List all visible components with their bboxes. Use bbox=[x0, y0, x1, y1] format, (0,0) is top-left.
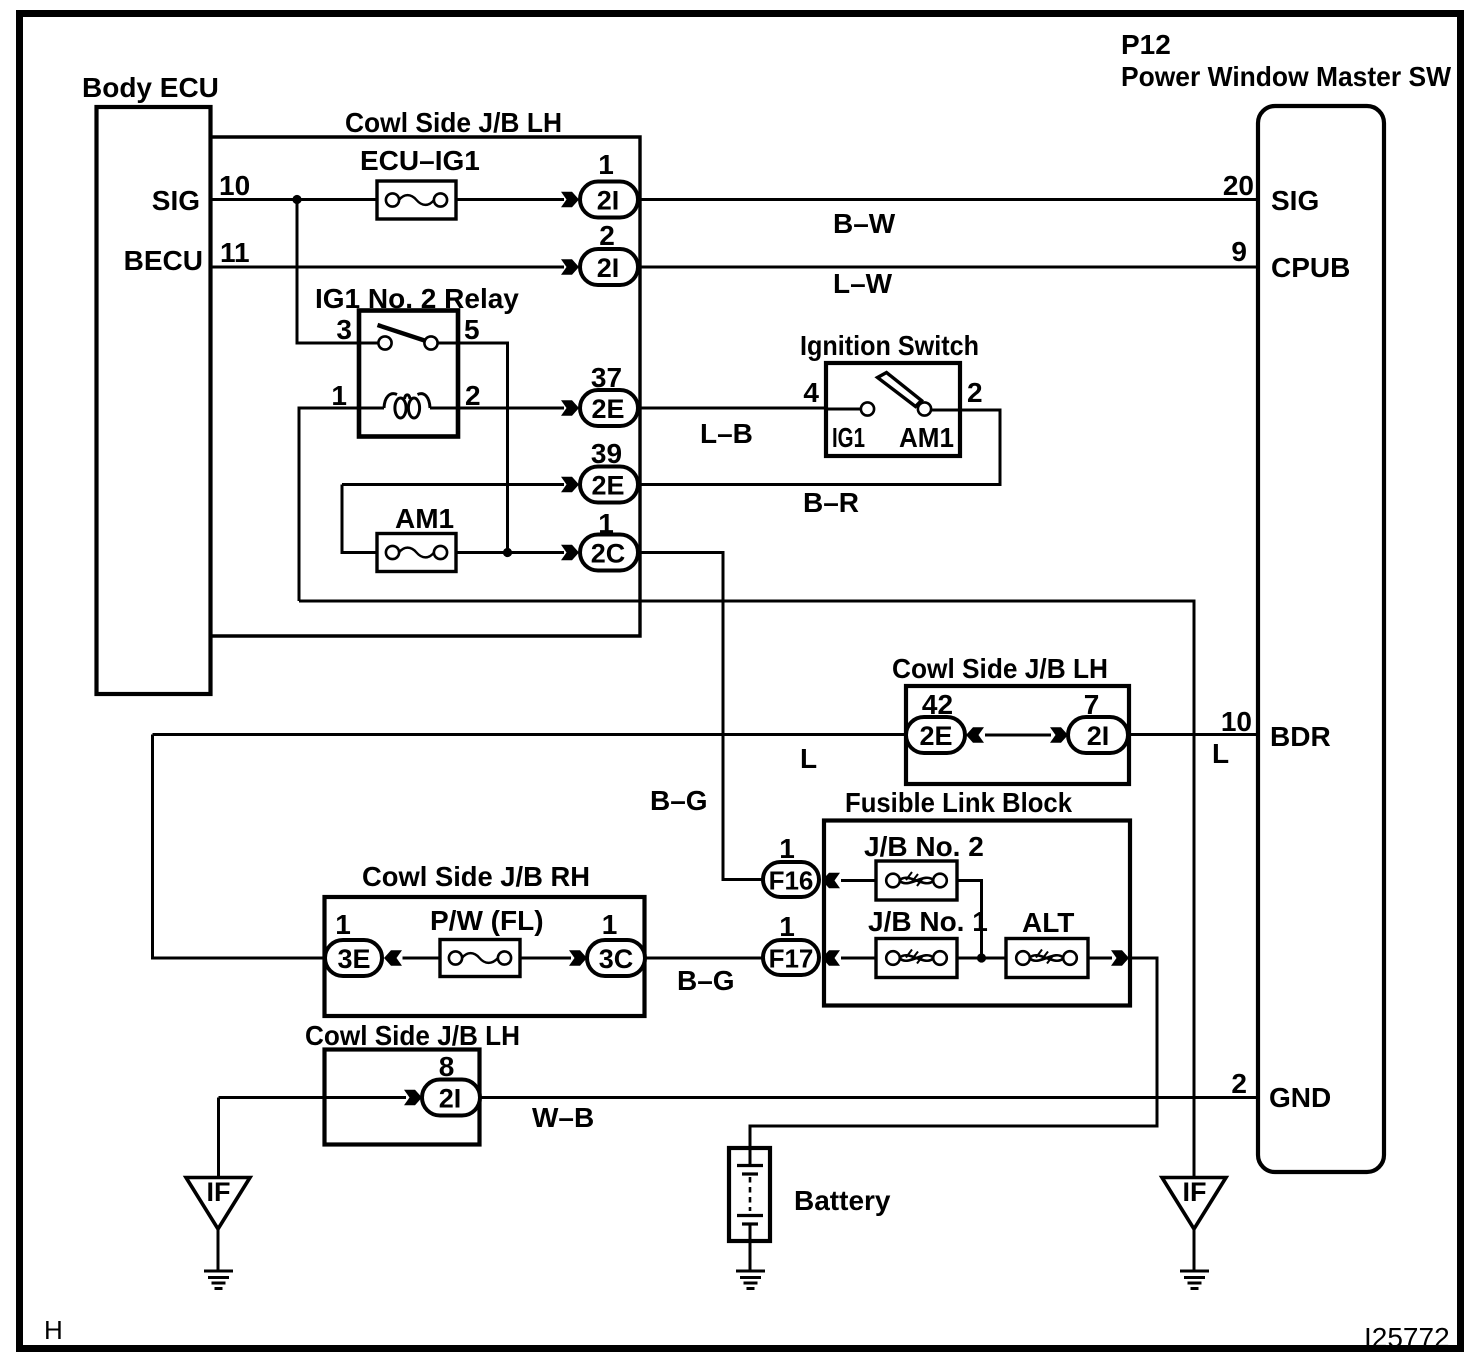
svg-text:1: 1 bbox=[598, 508, 614, 539]
svg-text:CPUB: CPUB bbox=[1271, 252, 1350, 283]
svg-text:1: 1 bbox=[602, 909, 618, 940]
svg-text:2I: 2I bbox=[1087, 721, 1110, 751]
svg-text:20: 20 bbox=[1223, 170, 1254, 201]
P12 pin 2 GND bbox=[1231, 1068, 1331, 1113]
svg-text:9: 9 bbox=[1231, 236, 1247, 267]
ground triangle IF left bbox=[186, 1177, 250, 1229]
svg-text:L–B: L–B bbox=[700, 418, 753, 449]
svg-text:1: 1 bbox=[779, 911, 795, 942]
svg-text:1: 1 bbox=[331, 380, 347, 411]
svg-text:10: 10 bbox=[1221, 706, 1252, 737]
svg-text:IG1 No. 2 Relay: IG1 No. 2 Relay bbox=[315, 283, 519, 314]
connector 2E pin 37 bbox=[580, 362, 638, 426]
svg-text:B–W: B–W bbox=[833, 208, 896, 239]
svg-text:2I: 2I bbox=[597, 253, 620, 283]
arrow into 2I 7 (right pointing) bbox=[1050, 727, 1068, 743]
wire relay pin 5 down to AM1 row bbox=[438, 343, 508, 553]
svg-text:2E: 2E bbox=[591, 394, 624, 424]
Cowl Side J/B LH box (bottom) bbox=[305, 1020, 520, 1145]
svg-text:J/B No. 2: J/B No. 2 bbox=[864, 831, 984, 862]
wire BECU row bbox=[210, 266, 564, 269]
svg-text:5: 5 bbox=[464, 314, 480, 345]
svg-text:1: 1 bbox=[335, 909, 351, 940]
wire 2I8 to P12 GND (W-B) bbox=[480, 1096, 1258, 1099]
wire J/B No.2 to junction bbox=[957, 881, 982, 959]
connector F17 bbox=[763, 911, 819, 975]
connector 3E bbox=[325, 909, 382, 976]
svg-text:3E: 3E bbox=[337, 944, 370, 974]
svg-text:F17: F17 bbox=[769, 944, 814, 974]
svg-text:2: 2 bbox=[1231, 1068, 1247, 1099]
wire 3E to fuse bbox=[403, 957, 441, 960]
svg-text:L: L bbox=[800, 743, 817, 774]
fuse ECU-IG1 bbox=[360, 145, 480, 219]
svg-text:IG1: IG1 bbox=[832, 422, 865, 453]
Cowl Side J/B RH box bbox=[325, 861, 645, 1016]
svg-text:H: H bbox=[44, 1315, 63, 1345]
ignition blade bbox=[878, 373, 922, 407]
svg-text:Power Window Master SW: Power Window Master SW bbox=[1121, 61, 1452, 92]
svg-text:4: 4 bbox=[803, 377, 819, 408]
arrow into 2E 42 (left pointing) bbox=[966, 727, 984, 743]
svg-text:3: 3 bbox=[336, 314, 352, 345]
svg-text:Cowl Side J/B RH: Cowl Side J/B RH bbox=[362, 861, 590, 892]
svg-text:Battery: Battery bbox=[794, 1185, 891, 1216]
svg-text:ALT: ALT bbox=[1022, 907, 1074, 938]
svg-text:10: 10 bbox=[219, 170, 250, 201]
arrow into 2E 39 bbox=[561, 477, 579, 493]
svg-text:Body ECU: Body ECU bbox=[82, 72, 219, 103]
arrow into 2E 37 bbox=[561, 400, 579, 416]
ignition pin labels bbox=[803, 377, 982, 453]
svg-text:2I: 2I bbox=[597, 186, 620, 216]
svg-text:B–G: B–G bbox=[650, 785, 708, 816]
connector 2E pin 39 bbox=[580, 438, 638, 503]
svg-text:11: 11 bbox=[220, 237, 250, 268]
svg-text:Cowl Side J/B LH: Cowl Side J/B LH bbox=[305, 1020, 520, 1051]
svg-text:2: 2 bbox=[599, 220, 615, 251]
P12 Power Window Master SW connector bbox=[1121, 29, 1452, 1172]
connector 2E pin 42 bbox=[906, 689, 965, 753]
wire GND row left bbox=[219, 1096, 407, 1099]
arrow into 2I pin1 bbox=[561, 192, 579, 208]
wire battery to ground bbox=[749, 1241, 752, 1271]
svg-text:39: 39 bbox=[591, 438, 622, 469]
svg-text:SIG: SIG bbox=[152, 185, 200, 216]
svg-text:2E: 2E bbox=[919, 721, 952, 751]
wire SIG to P12 (B-W) bbox=[638, 198, 1258, 201]
connector 2I pin 1 bbox=[580, 149, 638, 218]
Fusible Link Block box bbox=[824, 787, 1130, 1006]
svg-text:P12: P12 bbox=[1121, 29, 1171, 60]
svg-text:P/W (FL): P/W (FL) bbox=[430, 905, 544, 936]
svg-text:Cowl Side J/B LH: Cowl Side J/B LH bbox=[345, 107, 562, 138]
wire SIG row bbox=[210, 198, 564, 201]
svg-text:F16: F16 bbox=[769, 866, 814, 896]
svg-text:AM1: AM1 bbox=[395, 503, 454, 534]
svg-text:2E: 2E bbox=[591, 471, 624, 501]
arrow out of fusible link block (right pointing) bbox=[1111, 950, 1129, 966]
wire junction down to relay pin 3 bbox=[297, 200, 378, 344]
fusible link ALT bbox=[1006, 907, 1088, 978]
svg-text:Ignition Switch: Ignition Switch bbox=[800, 330, 979, 361]
wire relay pin 2 to 2E 37 bbox=[456, 407, 564, 410]
wire relay pin 1 left and down bbox=[299, 408, 359, 601]
ignition wire inside bbox=[826, 408, 861, 411]
arrow into 2C bbox=[561, 545, 579, 561]
Cowl Side J/B LH box (upper) bbox=[211, 107, 641, 636]
wire fuse to 3C bbox=[520, 957, 571, 960]
node junction F17 row bbox=[977, 953, 986, 962]
pin BECU label bbox=[124, 237, 250, 276]
svg-text:Cowl Side J/B LH: Cowl Side J/B LH bbox=[892, 653, 1108, 684]
relay blade bbox=[378, 325, 427, 341]
svg-text:7: 7 bbox=[1084, 689, 1100, 720]
arrow into 2I pin2 bbox=[561, 259, 579, 275]
pin SIG label bbox=[152, 170, 250, 216]
svg-text:37: 37 bbox=[591, 362, 622, 393]
wire pin1 ground run to right side bbox=[299, 601, 1194, 1177]
relay contact circles bbox=[378, 336, 391, 349]
battery bbox=[729, 1148, 891, 1241]
svg-text:BDR: BDR bbox=[1270, 721, 1331, 752]
svg-text:IF: IF bbox=[1183, 1177, 1207, 1207]
svg-text:8: 8 bbox=[439, 1051, 455, 1082]
svg-text:B–G: B–G bbox=[677, 965, 735, 996]
svg-text:I25772: I25772 bbox=[1364, 1322, 1450, 1353]
ground symbol left bbox=[204, 1271, 233, 1289]
wire AM1 to 2C bbox=[456, 551, 564, 554]
arrow into F17 (left pointing) bbox=[822, 950, 840, 966]
wire F17 row bbox=[841, 957, 876, 960]
svg-text:B–R: B–R bbox=[803, 487, 859, 518]
wire J/B No.1 to ALT bbox=[957, 957, 1006, 960]
arrow into 3E (left pointing) bbox=[384, 950, 402, 966]
node junction on SIG wire bbox=[292, 195, 301, 204]
fuse AM1 bbox=[377, 503, 456, 572]
connector 2I pin 8 bbox=[422, 1051, 480, 1116]
svg-text:3C: 3C bbox=[599, 944, 634, 974]
fusible link J/B No. 2 bbox=[864, 831, 984, 900]
svg-text:L: L bbox=[1212, 738, 1229, 769]
svg-text:W–B: W–B bbox=[532, 1102, 594, 1133]
svg-text:IF: IF bbox=[207, 1177, 231, 1207]
svg-text:GND: GND bbox=[1269, 1082, 1331, 1113]
fuse P/W (FL) bbox=[430, 905, 544, 977]
svg-text:2: 2 bbox=[967, 377, 983, 408]
relay pin labels bbox=[331, 314, 480, 411]
wire 39 row down to AM1 fuse bbox=[342, 485, 377, 553]
svg-text:2C: 2C bbox=[591, 539, 626, 569]
wire left down to IF ground bbox=[217, 1098, 220, 1178]
svg-text:2: 2 bbox=[465, 380, 481, 411]
ground triangle IF right bbox=[1162, 1177, 1226, 1229]
svg-text:BECU: BECU bbox=[124, 245, 203, 276]
node junction pin5/2C bbox=[503, 548, 512, 557]
wire BDR left down to 3E row bbox=[153, 735, 326, 959]
wire 2E37 to ignition switch (L-B) bbox=[638, 407, 826, 410]
wire CPUB to P12 (L-W) bbox=[638, 266, 1258, 269]
wire IF left to ground bbox=[217, 1229, 220, 1271]
Cowl Side J/B LH box (middle) bbox=[892, 653, 1129, 784]
connector 2C pin 1 bbox=[580, 508, 638, 571]
svg-text:42: 42 bbox=[922, 689, 953, 720]
arrow into F16 (left pointing) bbox=[822, 873, 840, 889]
P12 pin 20 SIG bbox=[1223, 170, 1319, 216]
svg-text:AM1: AM1 bbox=[899, 422, 954, 453]
ground symbol battery bbox=[736, 1271, 765, 1289]
wire IF right to ground bbox=[1193, 1229, 1196, 1271]
wire between 2E42 and 2I7 bbox=[985, 734, 1051, 737]
P12 pin 10 BDR bbox=[1221, 706, 1331, 752]
connector F16 bbox=[763, 833, 819, 897]
connector 2I pin 2 bbox=[580, 220, 638, 285]
svg-text:SIG: SIG bbox=[1271, 185, 1319, 216]
svg-text:1: 1 bbox=[779, 833, 795, 864]
wire 3C to F17 (B-G) bbox=[645, 957, 763, 960]
connector 2I pin 7 bbox=[1068, 689, 1128, 753]
wire 2E39 to ignition AM1 (B-R) bbox=[638, 410, 1000, 485]
wire to battery feed bbox=[750, 958, 1157, 1148]
IG1 No. 2 Relay bbox=[315, 283, 519, 437]
svg-text:Fusible Link Block: Fusible Link Block bbox=[845, 787, 1072, 818]
wire 39 row left segment bbox=[342, 483, 564, 486]
P12 pin 9 CPUB bbox=[1231, 236, 1350, 283]
ground symbol right bbox=[1180, 1271, 1209, 1289]
Ignition Switch bbox=[800, 330, 979, 456]
arrow into 2I 8 (right pointing) bbox=[404, 1090, 422, 1106]
Body ECU box bbox=[82, 72, 219, 694]
wire BDR row (L) bbox=[153, 733, 1259, 736]
svg-text:L–W: L–W bbox=[833, 268, 893, 299]
svg-text:ECU–IG1: ECU–IG1 bbox=[360, 145, 480, 176]
relay coil bbox=[361, 394, 456, 418]
svg-text:2I: 2I bbox=[439, 1084, 462, 1114]
wire 2C right and down to F16 (B-G) bbox=[638, 553, 763, 880]
fusible link J/B No. 1 bbox=[868, 906, 988, 978]
svg-text:1: 1 bbox=[598, 149, 614, 180]
arrow into 3C (right pointing) bbox=[569, 950, 587, 966]
wire ALT to arrow bbox=[1088, 957, 1112, 960]
wire F16 row bbox=[841, 879, 876, 882]
connector 3C bbox=[587, 909, 645, 976]
svg-text:J/B No. 1: J/B No. 1 bbox=[868, 906, 988, 937]
ignition terminal circles bbox=[861, 402, 874, 415]
